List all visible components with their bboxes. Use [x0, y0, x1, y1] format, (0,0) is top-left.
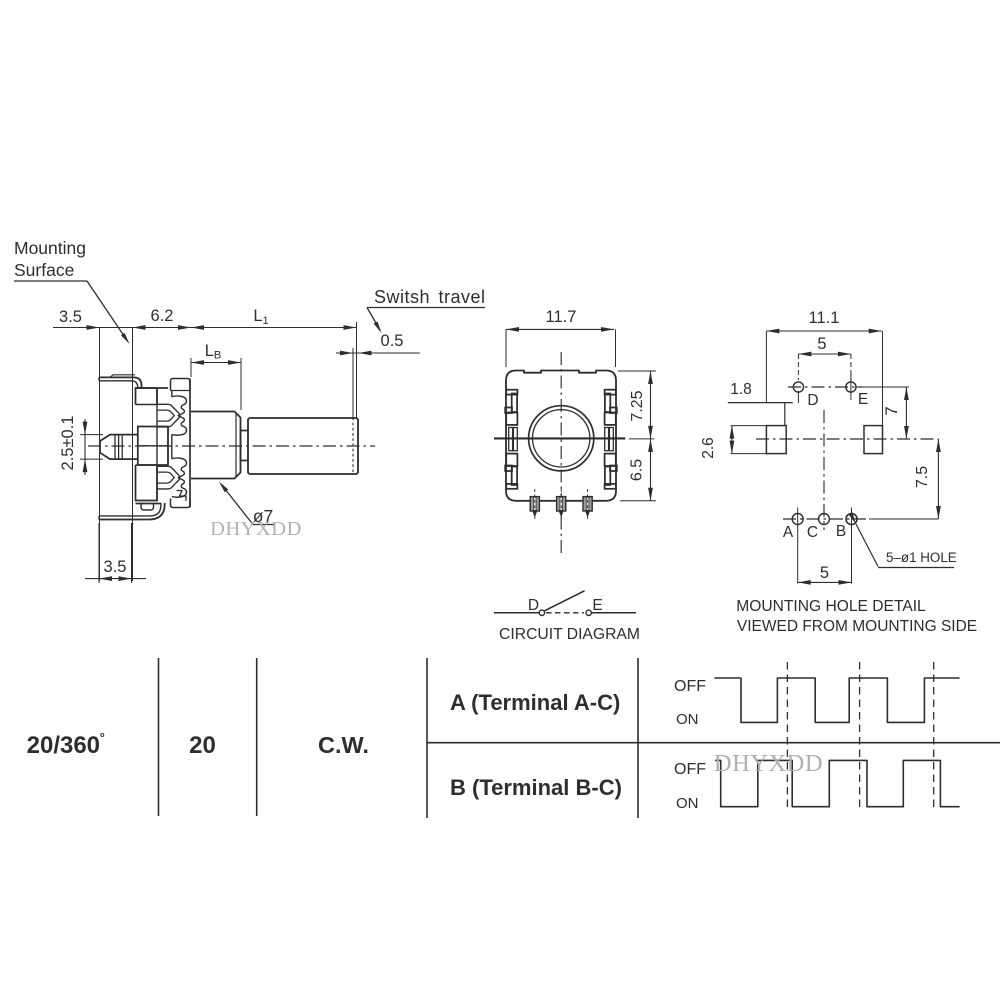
- svg-text:20/360˚: 20/360˚: [27, 732, 106, 759]
- side view: dimension 0.5 switch travel: [336, 322, 420, 418]
- svg-text:D: D: [528, 597, 539, 614]
- side view: body bottom cap: [171, 491, 191, 508]
- mounting detail: left slot: [766, 426, 786, 454]
- side view: extension lines at mounting bracket: [100, 328, 133, 582]
- mounting detail: vertical centerline: [823, 410, 825, 530]
- waveform B: trace: [715, 760, 959, 806]
- svg-text:7.25: 7.25: [629, 390, 646, 421]
- svg-text:20: 20: [189, 732, 216, 759]
- mounting detail: line E to dim 7: [856, 386, 909, 388]
- svg-text:ON: ON: [676, 795, 699, 812]
- svg-text:A: A: [783, 524, 794, 541]
- mounting detail: hole A: [783, 508, 803, 584]
- svg-text:ON: ON: [676, 711, 699, 728]
- svg-text:CIRCUIT DIAGRAM: CIRCUIT DIAGRAM: [499, 626, 640, 643]
- circuit diagram: switch arm: [545, 591, 585, 611]
- mounting detail: dimension 5 bottom: [798, 564, 852, 585]
- circuit diagram: left wire: [494, 612, 539, 614]
- side view: lower spring clip: [157, 458, 187, 497]
- front view: dimension 6.5: [620, 439, 656, 501]
- svg-text:D: D: [807, 392, 818, 409]
- svg-text:5: 5: [820, 564, 829, 582]
- side view: horizontal centerline of shaft: [88, 445, 375, 447]
- mounting detail: dimension 7.5: [914, 439, 941, 519]
- front view: left terminal pin: [530, 489, 539, 520]
- side view: mounting bracket top tab: [99, 375, 142, 389]
- table: row divider: [427, 742, 1000, 744]
- svg-text:OFF: OFF: [674, 678, 706, 695]
- mounting detail: hole D: [793, 382, 818, 409]
- svg-text:1.8: 1.8: [730, 381, 752, 398]
- mounting detail: label 5-ø1 HOLE: [848, 512, 956, 567]
- svg-text:B (Terminal B-C): B (Terminal B-C): [450, 775, 622, 800]
- front view: rotor circle: [529, 406, 594, 471]
- side view: pushbutton plunger: [100, 435, 138, 460]
- side view: shaft: [248, 418, 358, 475]
- mounting detail: horizontal centerline: [756, 438, 938, 440]
- svg-text:11.1: 11.1: [809, 309, 840, 327]
- mounting detail: dimension 2.6: [700, 426, 766, 459]
- svg-text:VIEWED FROM MOUNTING SIDE: VIEWED FROM MOUNTING SIDE: [737, 618, 977, 635]
- svg-text:6.2: 6.2: [151, 307, 174, 325]
- svg-text:2.6: 2.6: [700, 437, 717, 459]
- side view: bottom dimension 3.5: [85, 523, 146, 583]
- front view: middle terminal pin: [557, 489, 566, 520]
- circuit diagram: contact D: [528, 597, 545, 616]
- svg-text:6.5: 6.5: [629, 459, 646, 481]
- mounting detail: dimension 5 top: [798, 335, 851, 380]
- svg-text:MOUNTING HOLE DETAIL: MOUNTING HOLE DETAIL: [736, 598, 926, 615]
- svg-text:Mounting: Mounting: [14, 238, 86, 258]
- svg-text:B: B: [836, 523, 846, 540]
- front view: vertical centerline: [560, 352, 562, 556]
- svg-text:C.W.: C.W.: [318, 732, 369, 758]
- svg-text:3.5: 3.5: [104, 558, 127, 576]
- front view: right terminal pin: [583, 489, 592, 520]
- side view: dimension LB: [191, 342, 241, 410]
- svg-text:7.5: 7.5: [914, 466, 931, 488]
- front view: dimension 11.7: [506, 308, 616, 367]
- mounting detail: hole E: [846, 374, 868, 408]
- svg-text:3.5: 3.5: [59, 308, 82, 326]
- waveform phase dashed lines: [787, 662, 933, 810]
- side view: dimension 2.5±0.1 plunger: [59, 416, 103, 475]
- mounting detail: centerline A-C-B: [783, 518, 866, 520]
- side view: diameter label ø7: [219, 482, 274, 527]
- circuit diagram: contact E: [586, 597, 603, 616]
- circuit diagram: right wire: [591, 612, 636, 614]
- front view: right side clip: [605, 390, 617, 489]
- mounting detail: dimension 7: [882, 387, 909, 439]
- svg-text:5: 5: [817, 335, 826, 353]
- svg-text:E: E: [858, 391, 868, 408]
- front view: solid horizontal centerline: [494, 437, 625, 439]
- side view: encoder body blocks: [136, 379, 191, 508]
- mounting detail: dimension 11.1: [766, 309, 882, 426]
- waveform A: trace: [714, 678, 959, 722]
- side view: bottom switch pin: [141, 504, 154, 511]
- svg-text:LB: LB: [205, 342, 222, 362]
- svg-text:Switsh travel: Switsh travel: [374, 287, 486, 307]
- svg-text:7: 7: [882, 406, 901, 415]
- side view: threaded bushing: [191, 412, 241, 479]
- svg-text:DHYXDD: DHYXDD: [714, 750, 823, 777]
- front view: dimension 7.25: [618, 371, 656, 439]
- mounting detail: right slot: [864, 426, 883, 454]
- mounting detail: dimension 1.8 and step contour: [728, 381, 793, 426]
- table: column dividers: [159, 658, 639, 818]
- svg-text:A (Terminal A-C): A (Terminal A-C): [450, 690, 620, 715]
- svg-text:5–ø1 HOLE: 5–ø1 HOLE: [886, 550, 957, 565]
- svg-text:0.5: 0.5: [381, 332, 404, 350]
- svg-text:C: C: [807, 524, 818, 541]
- svg-text:L1: L1: [253, 307, 268, 327]
- front view: left side clip: [505, 390, 517, 489]
- waveform B: OFF/ON labels: [674, 761, 706, 812]
- svg-text:Surface: Surface: [14, 260, 74, 280]
- mounting detail: hole B: [836, 508, 857, 584]
- mounting detail: centerline D-E: [788, 386, 862, 388]
- side view: Switsh travel label: [367, 287, 486, 333]
- svg-text:11.7: 11.7: [546, 308, 577, 326]
- side view: mounting bracket bottom foot: [99, 503, 165, 520]
- mounting detail: line B to dim 7.5: [869, 518, 938, 520]
- side view: shaft neck: [241, 431, 249, 461]
- side view: upper spring clip: [157, 396, 187, 435]
- svg-text:DHYXDD: DHYXDD: [210, 518, 302, 540]
- circuit diagram: dashed closed position: [546, 612, 584, 614]
- side view: Mounting Surface label: [14, 238, 130, 344]
- svg-text:2.5±0.1: 2.5±0.1: [59, 416, 77, 471]
- svg-text:OFF: OFF: [674, 761, 706, 778]
- svg-text:E: E: [592, 597, 602, 614]
- side view: top dimension line 3.5 / 6.2 / L1: [53, 307, 357, 330]
- front view: body outline: [506, 371, 616, 501]
- mounting detail: hole C: [807, 514, 830, 542]
- side view: body top cap: [171, 379, 191, 391]
- waveform A: OFF/ON labels: [674, 678, 706, 728]
